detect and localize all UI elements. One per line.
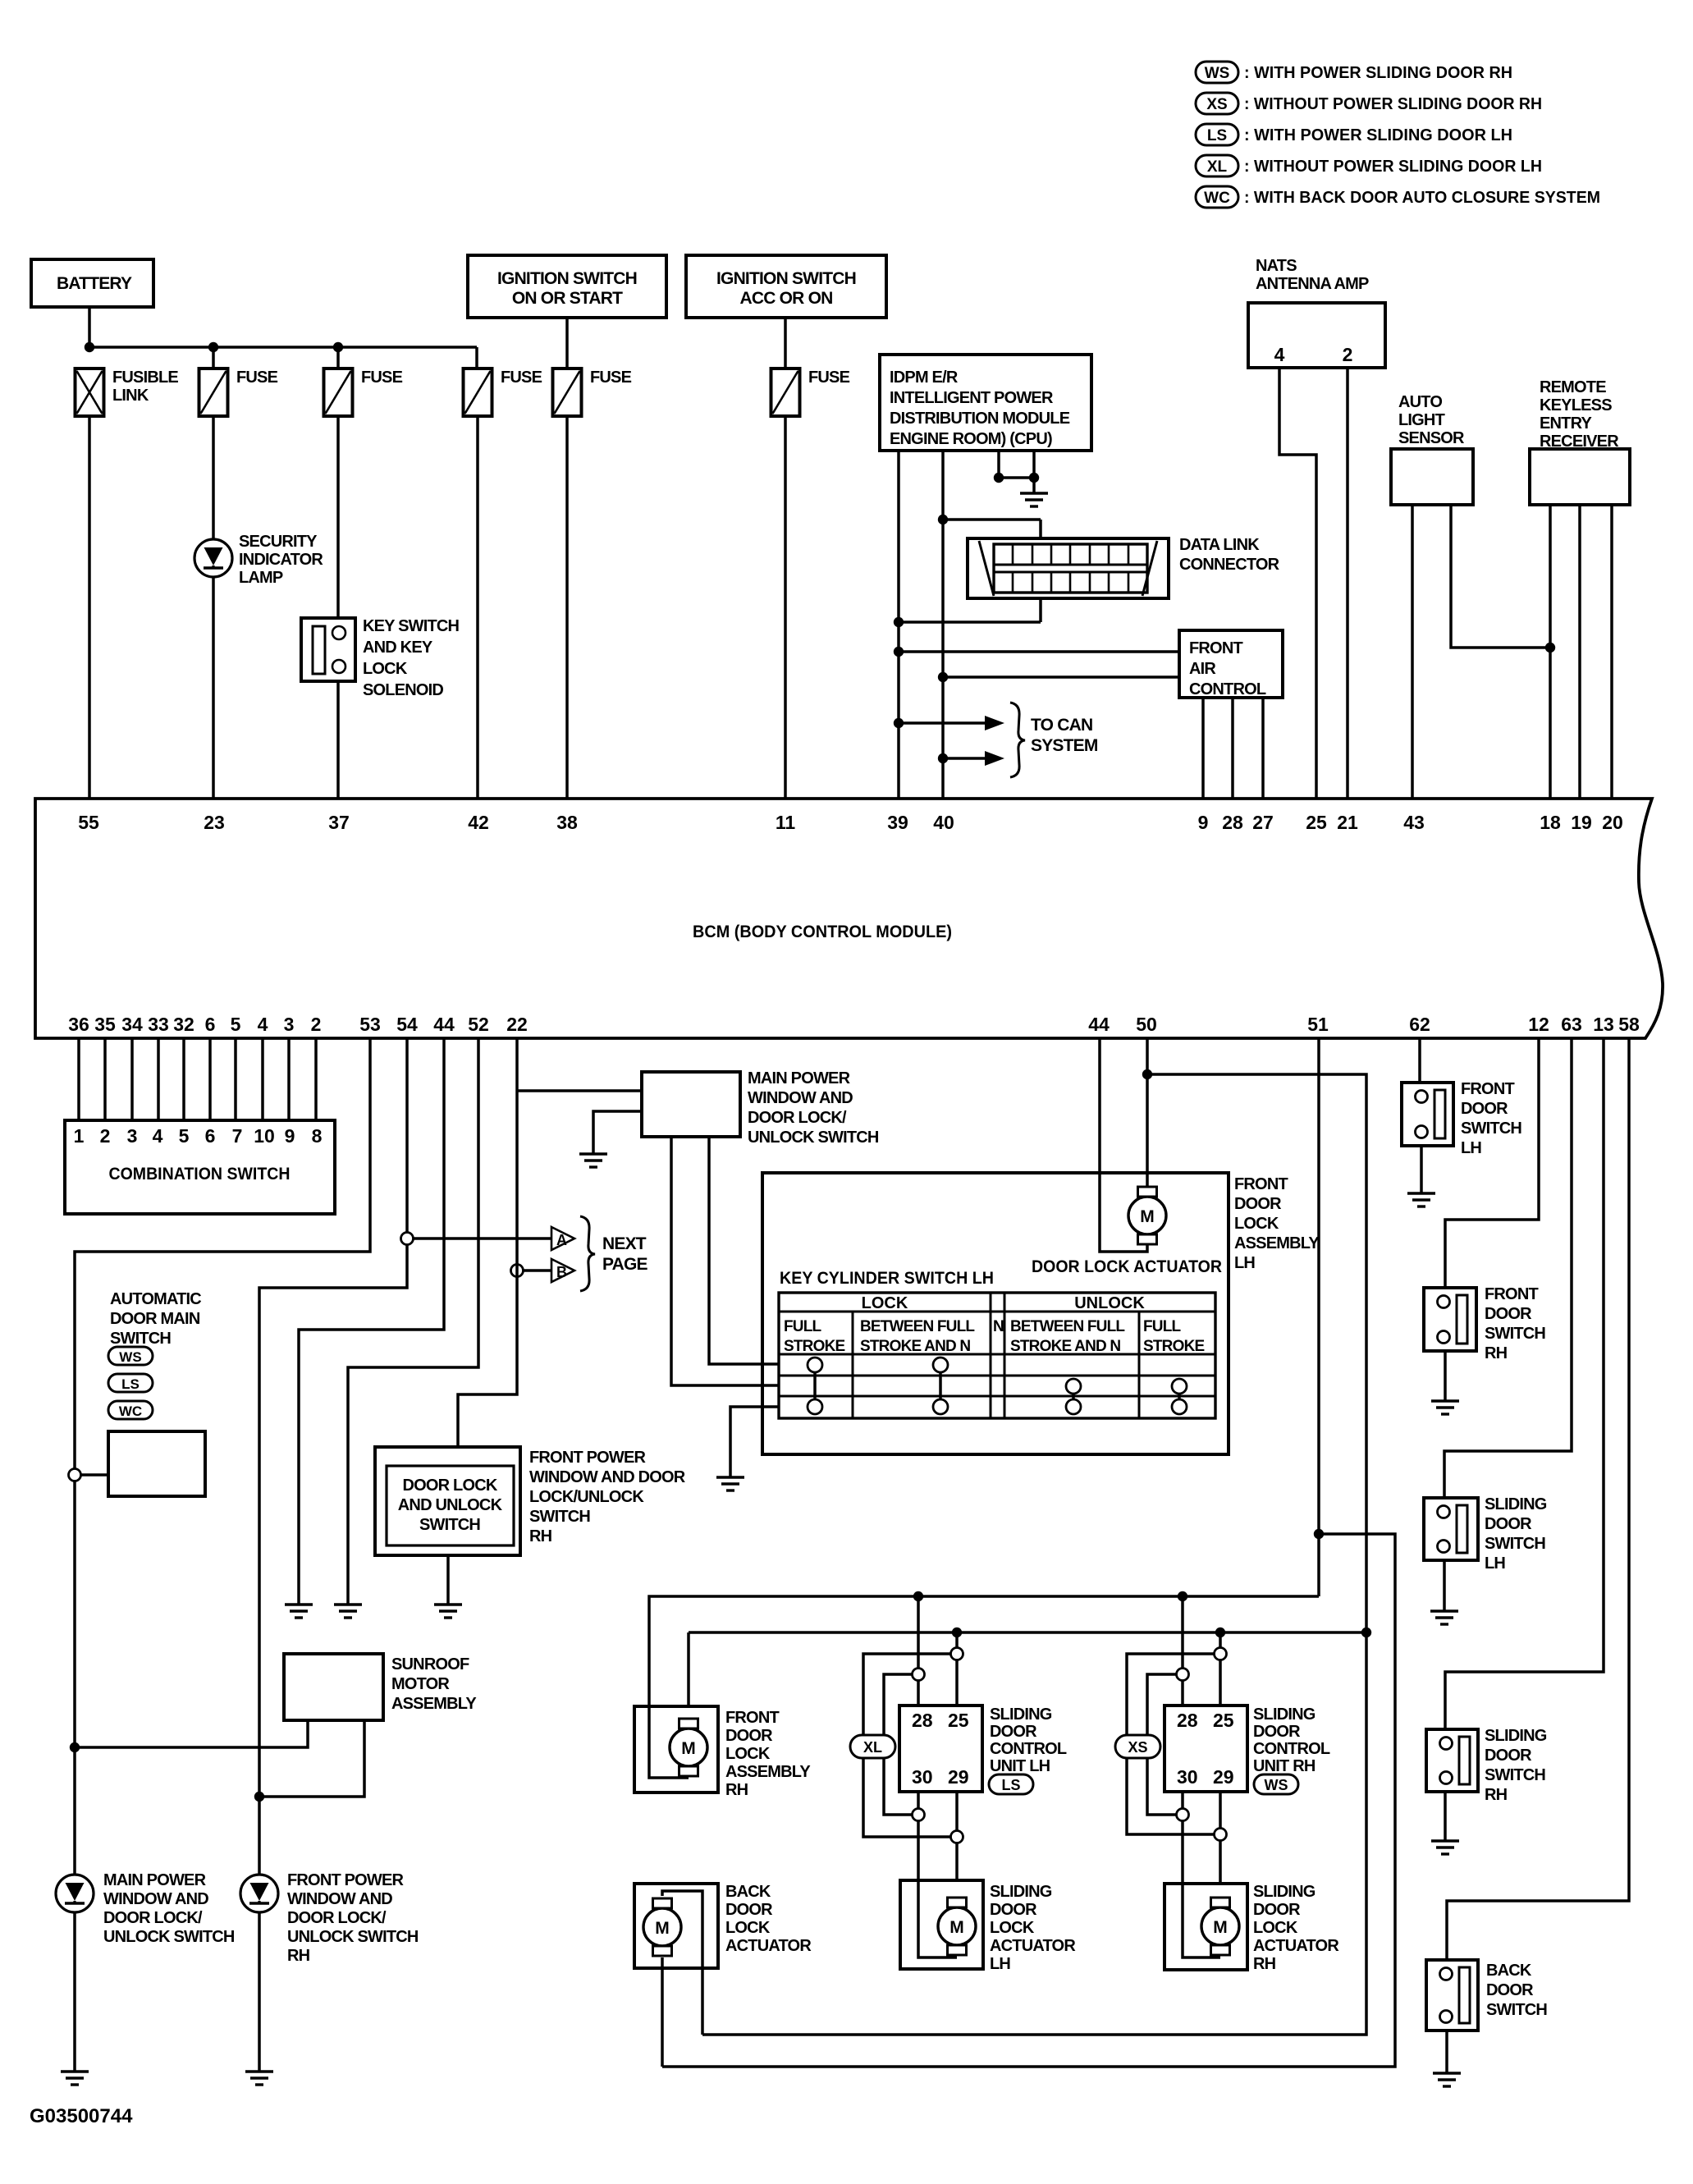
svg-text:NATS: NATS bbox=[1256, 257, 1297, 275]
svg-text:UNIT RH: UNIT RH bbox=[1253, 1757, 1316, 1775]
svg-text:DOOR LOCK/: DOOR LOCK/ bbox=[103, 1909, 203, 1927]
svg-text:AUTO: AUTO bbox=[1398, 393, 1442, 411]
svg-text:DOOR: DOOR bbox=[990, 1901, 1037, 1919]
wire BCM pin 51 down bbox=[1317, 1038, 1320, 1596]
svg-text:DOOR: DOOR bbox=[725, 1901, 773, 1919]
svg-text:8: 8 bbox=[312, 1125, 323, 1147]
wire bus2 (pin50) bbox=[689, 1631, 1366, 1634]
wire fuse4 to BCM pin 38 bbox=[565, 416, 569, 799]
connector circle A bbox=[401, 1233, 414, 1245]
ground IDPM bbox=[1020, 493, 1048, 506]
BCM body control module bbox=[35, 799, 1663, 1038]
svg-text:UNLOCK SWITCH: UNLOCK SWITCH bbox=[103, 1928, 235, 1946]
svg-text:FUSE: FUSE bbox=[590, 369, 632, 387]
svg-text:2: 2 bbox=[100, 1125, 111, 1147]
svg-text:30: 30 bbox=[912, 1766, 933, 1788]
svg-text:STROKE: STROKE bbox=[784, 1338, 845, 1355]
svg-text:UNLOCK SWITCH: UNLOCK SWITCH bbox=[748, 1129, 879, 1147]
svg-text:BATTERY: BATTERY bbox=[57, 274, 132, 293]
main power window and door lock unlock switch lamp bbox=[56, 1875, 94, 1912]
svg-text:: WITH POWER SLIDING DOOR RH: : WITH POWER SLIDING DOOR RH bbox=[1244, 64, 1512, 82]
wire FDSLH to ground bbox=[1420, 1146, 1423, 1193]
node pin50 branch junction bbox=[1142, 1069, 1152, 1079]
wire MPW to key cylinder row1 bbox=[709, 1137, 779, 1364]
svg-text:51: 51 bbox=[1307, 1014, 1329, 1035]
svg-text:ASSEMBLY: ASSEMBLY bbox=[725, 1763, 811, 1781]
legend tag WC bbox=[1196, 186, 1238, 208]
svg-text:DOOR: DOOR bbox=[1253, 1901, 1301, 1919]
key cylinder contacts row2 bbox=[1066, 1379, 1081, 1394]
svg-text:62: 62 bbox=[1409, 1014, 1430, 1035]
svg-text:WINDOW AND: WINDOW AND bbox=[748, 1089, 853, 1107]
svg-text:SYSTEM: SYSTEM bbox=[1031, 736, 1098, 755]
node junction bbox=[938, 753, 948, 763]
key switch and key lock solenoid bbox=[301, 618, 355, 681]
wire CAN arrow 2 bbox=[943, 757, 985, 760]
svg-text:28: 28 bbox=[912, 1710, 933, 1731]
svg-text:MAIN POWER: MAIN POWER bbox=[748, 1069, 851, 1087]
ignition switch on or start bbox=[468, 255, 666, 318]
svg-text:LS: LS bbox=[1001, 1777, 1020, 1793]
front door lock assembly RH motor bbox=[670, 1728, 707, 1766]
svg-text:FUSE: FUSE bbox=[808, 369, 850, 387]
svg-text:ASSEMBLY: ASSEMBLY bbox=[391, 1695, 477, 1713]
svg-text:FUSE: FUSE bbox=[236, 369, 278, 387]
wire pin30RH to actuator bbox=[1181, 1792, 1184, 1884]
wire FDSRH to ground bbox=[1444, 1351, 1447, 1401]
svg-text:BACK: BACK bbox=[725, 1883, 771, 1901]
svg-text:22: 22 bbox=[506, 1014, 528, 1035]
svg-text:53: 53 bbox=[359, 1014, 381, 1035]
svg-text:PAGE: PAGE bbox=[602, 1255, 648, 1274]
svg-text:25: 25 bbox=[1213, 1710, 1234, 1731]
svg-text:SLIDING: SLIDING bbox=[990, 1706, 1052, 1724]
svg-text:WC: WC bbox=[1204, 190, 1230, 207]
svg-text:WS: WS bbox=[119, 1349, 141, 1365]
front door lock assembly RH box bbox=[634, 1706, 718, 1793]
svg-text:CONTROL: CONTROL bbox=[990, 1740, 1067, 1758]
svg-text:LOCK: LOCK bbox=[725, 1919, 771, 1937]
svg-text:STROKE: STROKE bbox=[1143, 1338, 1205, 1355]
node junction bbox=[894, 718, 904, 728]
svg-text:DOOR: DOOR bbox=[1253, 1723, 1301, 1741]
node junction sunroof right bbox=[254, 1792, 264, 1802]
svg-text:INTELLIGENT POWER: INTELLIGENT POWER bbox=[890, 389, 1054, 407]
connector circle 29LH bbox=[951, 1831, 963, 1843]
svg-text:MOTOR: MOTOR bbox=[391, 1675, 450, 1693]
tag XL bbox=[850, 1735, 895, 1758]
ground SDSLH bbox=[1430, 1611, 1458, 1624]
svg-text:13: 13 bbox=[1593, 1014, 1614, 1035]
svg-text:SWITCH: SWITCH bbox=[1486, 2001, 1547, 2019]
svg-text:SLIDING: SLIDING bbox=[990, 1883, 1052, 1901]
tag LS bbox=[108, 1374, 153, 1392]
key cylinder contact links bbox=[813, 1365, 817, 1407]
svg-text:COMBINATION SWITCH: COMBINATION SWITCH bbox=[109, 1165, 291, 1184]
svg-text:29: 29 bbox=[948, 1766, 969, 1788]
wire ALS to BCM pin 43 bbox=[1411, 505, 1414, 799]
wire pin40 to DLC top bbox=[943, 518, 1041, 521]
wire SDSLH to ground bbox=[1443, 1560, 1446, 1611]
svg-text:WINDOW AND: WINDOW AND bbox=[287, 1890, 392, 1908]
sunroof motor assembly box bbox=[284, 1654, 383, 1720]
svg-text:WC: WC bbox=[119, 1403, 142, 1419]
sliding door control unit LH box bbox=[899, 1706, 982, 1792]
fuse F3 bbox=[464, 369, 492, 416]
wire sunroof right to pin54 wire bbox=[259, 1720, 364, 1797]
svg-text:ANTENNA AMP: ANTENNA AMP bbox=[1256, 275, 1369, 293]
svg-text:MAIN POWER: MAIN POWER bbox=[103, 1871, 207, 1889]
connector circle 30LH bbox=[913, 1809, 925, 1821]
wire FAC to BCM pin 9 bbox=[1201, 698, 1205, 799]
wire IDPM to BCM pin 39 bbox=[897, 451, 900, 799]
ground lamp1 bbox=[61, 2072, 89, 2085]
svg-text:KEYLESS: KEYLESS bbox=[1540, 396, 1612, 414]
key cylinder switch table bbox=[779, 1293, 1215, 1418]
wire back door motor top feed bbox=[662, 1891, 702, 2035]
svg-text:37: 37 bbox=[328, 812, 350, 833]
wire fuse2 to key switch bbox=[336, 416, 340, 618]
node pin39 DLC junction bbox=[894, 617, 904, 627]
svg-text:5: 5 bbox=[231, 1014, 241, 1035]
wire junction to sunroof left bbox=[75, 1720, 308, 1747]
node bus2 end junction bbox=[1361, 1628, 1371, 1637]
svg-text:CONNECTOR: CONNECTOR bbox=[1179, 556, 1280, 574]
wire BCM pin 53 to automatic door main switch bbox=[75, 1038, 370, 1875]
wire A tap bbox=[407, 1237, 551, 1240]
wire XS loop upper bbox=[1127, 1654, 1220, 1834]
wire key cylinder row3 to ground bbox=[730, 1407, 779, 1477]
wire FAC to BCM pin 27 bbox=[1261, 698, 1265, 799]
wire MPW to key cylinder row2 bbox=[671, 1137, 779, 1385]
svg-text:SOLENOID: SOLENOID bbox=[363, 681, 443, 699]
svg-text:INDICATOR: INDICATOR bbox=[239, 551, 323, 569]
svg-text:FRONT: FRONT bbox=[1234, 1175, 1288, 1193]
ground BDS bbox=[1433, 2073, 1461, 2086]
wire bus1 (pin51) bbox=[649, 1596, 1319, 1706]
wire IDPM ground leg 2 bbox=[1032, 451, 1036, 478]
svg-text:SUNROOF: SUNROOF bbox=[391, 1655, 469, 1673]
svg-text:25: 25 bbox=[948, 1710, 969, 1731]
ground SDSRH bbox=[1431, 1841, 1459, 1854]
svg-text:55: 55 bbox=[78, 812, 99, 833]
svg-text:FRONT POWER: FRONT POWER bbox=[529, 1449, 647, 1467]
wire IDPM to BCM pin 40 bbox=[941, 451, 945, 799]
svg-text:LS: LS bbox=[1207, 127, 1227, 144]
wire motor2 interior bbox=[649, 1706, 689, 1778]
wire key switch to BCM pin 37 bbox=[336, 681, 340, 799]
connector circle 28LH bbox=[913, 1669, 925, 1681]
wire pin25RH from bus2 bbox=[1219, 1632, 1222, 1706]
svg-text:DOOR: DOOR bbox=[990, 1723, 1037, 1741]
svg-text:SWITCH: SWITCH bbox=[1485, 1325, 1545, 1343]
svg-text:4: 4 bbox=[1274, 344, 1285, 365]
svg-text:FRONT: FRONT bbox=[1485, 1285, 1538, 1303]
svg-text:NEXT: NEXT bbox=[602, 1234, 647, 1253]
svg-text:DOOR LOCK/: DOOR LOCK/ bbox=[748, 1109, 847, 1127]
wire pin28LH from bus1 bbox=[917, 1596, 920, 1706]
svg-text:LOCK: LOCK bbox=[725, 1745, 771, 1763]
svg-text:SWITCH: SWITCH bbox=[1485, 1535, 1545, 1553]
svg-text:SENSOR: SENSOR bbox=[1398, 429, 1465, 447]
svg-text:FRONT: FRONT bbox=[725, 1709, 779, 1727]
svg-text:DOOR LOCK: DOOR LOCK bbox=[402, 1477, 497, 1495]
svg-text:ACTUATOR: ACTUATOR bbox=[725, 1937, 812, 1955]
svg-text:SWITCH: SWITCH bbox=[529, 1508, 590, 1526]
svg-text:18: 18 bbox=[1540, 812, 1561, 833]
svg-text:: WITH BACK DOOR AUTO CLOSURE: : WITH BACK DOOR AUTO CLOSURE SYSTEM bbox=[1244, 189, 1600, 207]
svg-text:29: 29 bbox=[1213, 1766, 1234, 1788]
wire tap to main power window switch bbox=[517, 1089, 642, 1092]
svg-text:WS: WS bbox=[1205, 65, 1230, 82]
wire pin29RH to actuator bbox=[1219, 1792, 1222, 1895]
svg-text:SWITCH: SWITCH bbox=[1485, 1766, 1545, 1784]
svg-text:DOOR: DOOR bbox=[1234, 1195, 1282, 1213]
front door switch RH bbox=[1424, 1288, 1476, 1351]
svg-text:LIGHT: LIGHT bbox=[1398, 411, 1445, 429]
svg-text:REMOTE: REMOTE bbox=[1540, 378, 1606, 396]
IDPM E/R module bbox=[880, 355, 1091, 451]
svg-text:6: 6 bbox=[205, 1125, 216, 1147]
wire NATS pin2 to BCM pin 21 bbox=[1346, 368, 1349, 799]
svg-text:B: B bbox=[556, 1264, 567, 1280]
svg-text:A: A bbox=[556, 1232, 567, 1248]
door lock and unlock switch bbox=[375, 1447, 520, 1555]
node junction sunroof feed bbox=[70, 1742, 80, 1752]
svg-text:XL: XL bbox=[863, 1739, 882, 1756]
svg-text:40: 40 bbox=[933, 812, 954, 833]
wire pin25LH from bus2 bbox=[955, 1632, 959, 1706]
tag XS bbox=[1115, 1735, 1160, 1758]
svg-text:ON OR START: ON OR START bbox=[512, 289, 623, 308]
wire SDSRH to ground bbox=[1444, 1792, 1447, 1841]
svg-text:DOOR: DOOR bbox=[1486, 1981, 1534, 1999]
legend tag XL bbox=[1196, 155, 1238, 176]
svg-text:35: 35 bbox=[94, 1014, 116, 1035]
svg-text:SLIDING: SLIDING bbox=[1485, 1727, 1547, 1745]
svg-text:M: M bbox=[655, 1919, 670, 1938]
svg-text:28: 28 bbox=[1222, 812, 1243, 833]
svg-text:DOOR: DOOR bbox=[1485, 1305, 1532, 1323]
wire DLC bottom to pin39 wire bbox=[1039, 598, 1042, 622]
tag WS bbox=[108, 1347, 153, 1365]
svg-text:AND KEY: AND KEY bbox=[363, 639, 433, 657]
svg-text:DATA LINK: DATA LINK bbox=[1179, 536, 1260, 554]
node junction bbox=[938, 672, 948, 682]
svg-text:38: 38 bbox=[556, 812, 578, 833]
svg-text:LH: LH bbox=[1234, 1254, 1255, 1272]
wire ign2 to fuse5 bbox=[784, 318, 787, 369]
svg-text:DISTRIBUTION MODULE: DISTRIBUTION MODULE bbox=[890, 410, 1070, 428]
back door lock actuator box bbox=[634, 1884, 718, 1968]
svg-text:63: 63 bbox=[1561, 1014, 1582, 1035]
svg-text:KEY CYLINDER SWITCH LH: KEY CYLINDER SWITCH LH bbox=[780, 1269, 994, 1288]
svg-text:23: 23 bbox=[204, 812, 225, 833]
svg-text:44: 44 bbox=[1088, 1014, 1110, 1035]
wire XL loop lower bbox=[884, 1674, 918, 1815]
svg-text:WS: WS bbox=[1265, 1777, 1288, 1793]
svg-text:44: 44 bbox=[433, 1014, 455, 1035]
svg-text:DOOR: DOOR bbox=[1485, 1515, 1532, 1533]
wire to ground bbox=[1032, 478, 1036, 493]
wire BCM pin 50 to door lock actuator bbox=[1146, 1038, 1149, 1189]
svg-text:LOCK: LOCK bbox=[363, 660, 408, 678]
wire BCM pin 62 to front door switch LH bbox=[1418, 1038, 1421, 1089]
svg-text:LS: LS bbox=[121, 1376, 140, 1392]
svg-text:BCM (BODY CONTROL MODULE): BCM (BODY CONTROL MODULE) bbox=[693, 923, 952, 941]
wire pin28RH from bus1 bbox=[1181, 1596, 1184, 1706]
svg-text:58: 58 bbox=[1618, 1014, 1640, 1035]
connector circle 25LH bbox=[951, 1648, 963, 1660]
node bus1 junction RH bbox=[1178, 1591, 1187, 1601]
svg-text:3: 3 bbox=[127, 1125, 138, 1147]
back door lock actuator motor bbox=[643, 1908, 681, 1946]
svg-text:SLIDING: SLIDING bbox=[1253, 1706, 1316, 1724]
wire pin29LH to actuator bbox=[955, 1792, 959, 1895]
svg-text:XL: XL bbox=[1207, 158, 1228, 176]
svg-text:FRONT: FRONT bbox=[1189, 639, 1242, 657]
legend tag XS bbox=[1196, 93, 1238, 114]
ground MPW bbox=[579, 1154, 607, 1167]
svg-text:N: N bbox=[993, 1318, 1004, 1335]
svg-text:LAMP: LAMP bbox=[239, 569, 283, 587]
back door switch bbox=[1426, 1960, 1478, 2031]
svg-text:M: M bbox=[949, 1918, 964, 1937]
wire XL loop upper bbox=[863, 1654, 957, 1837]
fuse F4 bbox=[553, 369, 582, 416]
svg-text:: WITHOUT POWER SLIDING DOOR L: : WITHOUT POWER SLIDING DOOR LH bbox=[1244, 158, 1542, 176]
svg-text:34: 34 bbox=[121, 1014, 143, 1035]
svg-text:FRONT: FRONT bbox=[1461, 1080, 1514, 1098]
fusible link FL1 bbox=[75, 369, 104, 416]
svg-text:LH: LH bbox=[1461, 1139, 1481, 1157]
node pin40 DLC junction bbox=[938, 515, 948, 524]
ground FDSRH bbox=[1431, 1401, 1459, 1414]
svg-text:BETWEEN FULL: BETWEEN FULL bbox=[1010, 1318, 1125, 1335]
svg-text:27: 27 bbox=[1252, 812, 1274, 833]
front power window and door lock unlock switch RH lamp bbox=[240, 1875, 278, 1912]
security indicator lamp bbox=[194, 539, 232, 577]
svg-text:2: 2 bbox=[1343, 344, 1353, 365]
connector circle 28RH bbox=[1177, 1669, 1189, 1681]
node gnd junction 1 bbox=[994, 473, 1004, 483]
wire battery to bus bbox=[88, 307, 91, 347]
connector circle B bbox=[511, 1265, 524, 1277]
svg-text:STROKE AND N: STROKE AND N bbox=[860, 1338, 970, 1355]
sliding door lock actuator RH motor bbox=[1201, 1907, 1239, 1945]
wire XS loop lower bbox=[1147, 1674, 1183, 1815]
svg-text:UNLOCK: UNLOCK bbox=[1074, 1294, 1145, 1312]
svg-text:19: 19 bbox=[1571, 812, 1592, 833]
fuse F1 bbox=[199, 369, 228, 416]
svg-text:UNLOCK SWITCH: UNLOCK SWITCH bbox=[287, 1928, 419, 1946]
wire power bus bbox=[89, 346, 477, 349]
wire FAC to BCM pin 28 bbox=[1231, 698, 1234, 799]
fuse F5 bbox=[771, 369, 800, 416]
sliding door control unit RH box bbox=[1165, 1706, 1247, 1792]
svg-text:9: 9 bbox=[285, 1125, 295, 1147]
wire LH actuator interior bbox=[918, 1880, 957, 1957]
svg-text:RH: RH bbox=[1485, 1344, 1508, 1362]
svg-text:RH: RH bbox=[1253, 1955, 1276, 1973]
wire motor2 top to bus2 bbox=[687, 1632, 690, 1717]
wire BCM pin 12 to front door switch RH bbox=[1445, 1038, 1539, 1295]
wire bus to fuse3 bbox=[475, 347, 478, 369]
svg-text:M: M bbox=[1140, 1207, 1155, 1226]
wire fusible link to BCM pin 55 bbox=[88, 416, 91, 799]
svg-text:SECURITY: SECURITY bbox=[239, 533, 318, 551]
svg-text:: WITHOUT POWER SLIDING DOOR R: : WITHOUT POWER SLIDING DOOR RH bbox=[1244, 95, 1542, 113]
wire IDPM ground leg 1 bbox=[997, 451, 1000, 478]
wire DLU to ground bbox=[446, 1555, 450, 1605]
svg-text:12: 12 bbox=[1528, 1014, 1549, 1035]
svg-text:LH: LH bbox=[990, 1955, 1010, 1973]
node bus1 junction LH bbox=[913, 1591, 923, 1601]
wire RKE to BCM pin 20 bbox=[1610, 505, 1613, 799]
svg-text:LINK: LINK bbox=[112, 387, 149, 405]
wire pin50 branch to bus2 bbox=[702, 1074, 1366, 2035]
svg-text:LOCK: LOCK bbox=[1234, 1215, 1279, 1233]
wire MPW ground bbox=[593, 1111, 642, 1154]
node junction bbox=[894, 647, 904, 657]
battery B1 bbox=[31, 259, 153, 307]
svg-text:RH: RH bbox=[1485, 1786, 1508, 1804]
wire lamp1 to ground bbox=[73, 1912, 76, 2072]
front door lock assembly LH box bbox=[762, 1173, 1229, 1454]
node pin51 junction bbox=[1314, 1529, 1324, 1539]
wire RKE to BCM pin 18 bbox=[1549, 505, 1552, 799]
svg-text:FRONT POWER: FRONT POWER bbox=[287, 1871, 405, 1889]
svg-text:RH: RH bbox=[529, 1527, 552, 1545]
svg-text:21: 21 bbox=[1337, 812, 1358, 833]
next page arrow A bbox=[551, 1227, 574, 1250]
wire NATS pin4 to BCM pin 25 bbox=[1279, 368, 1316, 799]
svg-text:AND UNLOCK: AND UNLOCK bbox=[398, 1496, 503, 1514]
wire ALS to keyless wire bbox=[1451, 505, 1550, 648]
wire BCM pin 58 to back door switch bbox=[1447, 1038, 1629, 1966]
svg-text:DOOR LOCK ACTUATOR: DOOR LOCK ACTUATOR bbox=[1032, 1257, 1222, 1276]
svg-text:DOOR: DOOR bbox=[725, 1727, 773, 1745]
svg-text:IGNITION SWITCH: IGNITION SWITCH bbox=[497, 269, 637, 288]
svg-text:BETWEEN FULL: BETWEEN FULL bbox=[860, 1318, 975, 1335]
svg-text:1: 1 bbox=[74, 1125, 85, 1147]
svg-text:LH: LH bbox=[1485, 1554, 1505, 1573]
tag LS bbox=[989, 1774, 1033, 1794]
wire BCM pin 63 to sliding door switch LH bbox=[1444, 1038, 1572, 1504]
svg-text:36: 36 bbox=[68, 1014, 89, 1035]
svg-text:43: 43 bbox=[1403, 812, 1425, 833]
wire pin51 branch right bbox=[662, 1534, 1395, 2067]
ignition switch acc or on bbox=[686, 255, 886, 318]
svg-text:28: 28 bbox=[1177, 1710, 1198, 1731]
ground pin52 bbox=[334, 1605, 362, 1618]
node gnd junction 2 bbox=[1029, 473, 1039, 483]
connector circle 25RH bbox=[1215, 1648, 1227, 1660]
wire back door motor bottom feed bbox=[661, 1957, 664, 2067]
node bus2 junction LH bbox=[952, 1628, 962, 1637]
svg-text:DOOR MAIN: DOOR MAIN bbox=[110, 1310, 200, 1328]
sliding door switch RH bbox=[1426, 1729, 1478, 1792]
ground key cylinder bbox=[716, 1477, 744, 1490]
connector circle 29RH bbox=[1215, 1829, 1227, 1841]
wire BDS to ground bbox=[1445, 2031, 1448, 2073]
svg-text:LOCK/UNLOCK: LOCK/UNLOCK bbox=[529, 1488, 644, 1506]
svg-text:SWITCH: SWITCH bbox=[419, 1516, 480, 1534]
fuse F2 bbox=[324, 369, 353, 416]
svg-text:M: M bbox=[1213, 1918, 1228, 1937]
svg-text:2: 2 bbox=[311, 1014, 322, 1035]
svg-text:39: 39 bbox=[887, 812, 908, 833]
